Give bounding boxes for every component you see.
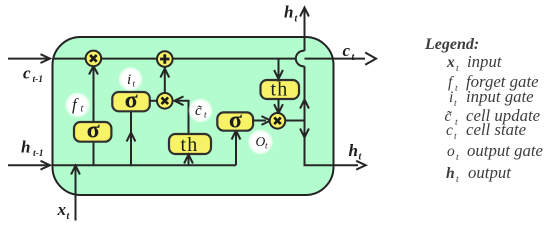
label h_{t-1} bbox=[21, 138, 44, 160]
svg-text:t: t bbox=[295, 14, 299, 25]
svg-text:x: x bbox=[57, 200, 67, 219]
svg-text:c̃: c̃ bbox=[195, 103, 202, 119]
svg-text:i: i bbox=[449, 89, 453, 106]
legend entry c_t cell state bbox=[446, 120, 527, 142]
label c~_t bubble bbox=[188, 98, 213, 123]
svg-text:t: t bbox=[456, 64, 459, 74]
svg-text:output gate: output gate bbox=[467, 141, 544, 160]
legend title bbox=[424, 36, 479, 53]
label f_t bubble bbox=[65, 92, 91, 118]
svg-text:t: t bbox=[67, 211, 71, 222]
wire: output multiply to h junction bbox=[285, 120, 305, 122]
svg-text:cell state: cell state bbox=[466, 120, 527, 139]
svg-text:t: t bbox=[456, 175, 459, 185]
svg-text:t-1: t-1 bbox=[33, 149, 44, 159]
wire: cell-state input arrow c_{t-1} bbox=[8, 54, 50, 63]
forget gate sigma box bbox=[74, 118, 111, 144]
wire: cell state line inside cell bbox=[53, 58, 366, 60]
output tanh box bbox=[261, 79, 300, 101]
input gate sigma box bbox=[112, 87, 150, 113]
wire: h_t up branch with hop over cell line bbox=[296, 8, 309, 121]
svg-text:c: c bbox=[446, 122, 453, 139]
svg-text:σ: σ bbox=[87, 118, 100, 144]
svg-text:h: h bbox=[349, 141, 358, 160]
wire: forget gate output to multiply bbox=[89, 66, 98, 122]
svg-text:th: th bbox=[271, 79, 289, 101]
legend entry x_t input bbox=[446, 52, 502, 74]
svg-text:th: th bbox=[181, 134, 199, 156]
svg-text:t: t bbox=[454, 99, 457, 109]
svg-text:t: t bbox=[455, 84, 458, 94]
svg-text:c: c bbox=[23, 64, 31, 83]
wire: riser into input gate bbox=[127, 110, 136, 165]
svg-text:t: t bbox=[456, 153, 459, 163]
svg-text:σ: σ bbox=[229, 107, 242, 133]
label x_t bbox=[57, 200, 71, 222]
wire: internal hidden-state line bbox=[53, 164, 237, 166]
output multiply node bbox=[270, 113, 286, 129]
multiply node (input x candidate) bbox=[157, 93, 173, 109]
svg-text:c: c bbox=[343, 41, 351, 60]
wire: candidate tanh output up and left into multiply bbox=[175, 96, 189, 133]
svg-text:t: t bbox=[352, 52, 356, 63]
legend entry i_t input gate bbox=[449, 87, 534, 109]
add node on cell line bbox=[157, 51, 173, 67]
svg-text:h: h bbox=[284, 3, 293, 22]
svg-text:h: h bbox=[446, 165, 455, 182]
wire: multiply up into add node bbox=[160, 67, 169, 93]
wire: riser into candidate tanh bbox=[184, 154, 193, 165]
svg-text:t: t bbox=[81, 104, 84, 115]
svg-text:h: h bbox=[21, 138, 30, 157]
output gate sigma box bbox=[217, 107, 253, 133]
label c_t bbox=[343, 41, 356, 63]
svg-text:t: t bbox=[454, 132, 457, 142]
wire: branch from cell line down into output tanh bbox=[274, 59, 283, 79]
svg-text:t: t bbox=[359, 152, 363, 163]
svg-text:i: i bbox=[127, 72, 131, 88]
multiply node on cell line (forget) bbox=[86, 51, 102, 67]
legend entry f_t forget gate bbox=[448, 72, 539, 94]
label h_t top bbox=[284, 3, 299, 25]
wire: input gate output into multiply bbox=[150, 100, 158, 102]
wire: h_{t-1} input arrow bbox=[8, 161, 50, 170]
wire: riser into forget gate bbox=[93, 140, 95, 165]
wire: output tanh down into output multiply bbox=[274, 99, 283, 114]
legend entry o_t output gate bbox=[447, 141, 544, 163]
label h_t right bbox=[349, 141, 363, 163]
label i_t bubble bbox=[118, 67, 143, 92]
wire: cell state exit arrow c_t bbox=[365, 53, 376, 65]
LSTM cell body bbox=[53, 37, 334, 195]
wire: riser into output gate bbox=[232, 130, 241, 165]
svg-text:x: x bbox=[446, 54, 455, 71]
label c_{t-1} bbox=[23, 64, 43, 86]
label o_t bubble bbox=[248, 129, 274, 155]
svg-text:input gate: input gate bbox=[466, 87, 534, 106]
svg-text:O: O bbox=[256, 134, 266, 149]
legend entry h_t output bbox=[446, 163, 511, 185]
svg-text:Legend:: Legend: bbox=[424, 36, 479, 53]
candidate tanh box bbox=[169, 134, 211, 156]
svg-text:o: o bbox=[447, 143, 455, 160]
svg-text:t: t bbox=[455, 118, 458, 128]
svg-text:input: input bbox=[467, 52, 502, 71]
svg-text:output: output bbox=[468, 163, 511, 182]
wire: output gate into output multiply bbox=[254, 116, 271, 125]
wire: h_t down branch and exit right bbox=[300, 121, 366, 170]
svg-text:t-1: t-1 bbox=[33, 75, 44, 85]
wire: x_t input arrow from below bbox=[71, 166, 80, 221]
legend entry c~_t cell update bbox=[445, 106, 541, 128]
